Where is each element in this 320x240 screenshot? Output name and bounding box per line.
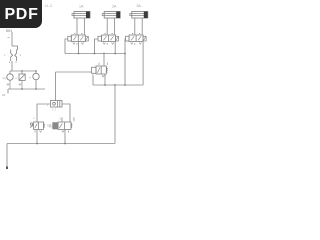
cylinder 2A (102, 12, 120, 19)
left column label under badge (6, 29, 12, 33)
check valve bypass bracket (12, 46, 18, 50)
PDF badge (0, 0, 42, 28)
shuttle valve 0V2 (51, 101, 63, 108)
wire supply bus upper (65, 53, 125, 55)
wire pilot line to valve 0V1 (56, 71, 92, 73)
wire valve 0V1 supply from below (104, 75, 106, 86)
compressor lower marks (19, 80, 22, 89)
node manifold junction 1 (21, 70, 23, 72)
gauge 2 lower wire (35, 80, 37, 89)
wire gauge 1 riser (9, 71, 11, 74)
label above valve 1S1 (33, 116, 35, 120)
wire cylinder 2A right port (114, 18, 116, 35)
node y85 junction 2 (114, 84, 116, 86)
valve 0V1 exhaust (102, 75, 105, 77)
wire valve 2S1 supply riser (64, 129, 66, 143)
valve 3V1 (5/2) (126, 35, 147, 42)
node bottom bus junction 2 (64, 143, 66, 145)
shuttle valve labels (47, 103, 57, 112)
valve 1S1 (3/2 roller) (30, 122, 45, 129)
wire manifold left drop (7, 89, 9, 94)
svg-text:0Z: 0Z (2, 93, 6, 97)
valve 3V1 port marks (131, 43, 142, 46)
wire main drop to bottom bus (114, 85, 116, 144)
svg-text:1A: 1A (79, 5, 84, 9)
valve 1S1 exhaust (35, 130, 42, 132)
wire valve 3V1 left pilot drop (124, 39, 127, 85)
wire filter to manifold (11, 61, 13, 71)
node manifold junction 2 (35, 70, 37, 72)
filter labels (4, 53, 22, 57)
tick above middle valve left (98, 63, 100, 66)
pressure gauge 2 (33, 73, 39, 79)
cylinder 2A label (112, 5, 117, 9)
wire bottom supply bus (7, 143, 115, 145)
wire bottom bus left drop (6, 144, 8, 167)
cylinder 1A label (79, 5, 84, 9)
valve 2S1 left label (49, 125, 53, 129)
wire stub above valve 2S1 (61, 118, 63, 123)
svg-text:2: 2 (20, 53, 22, 57)
wire gauge 2 riser (35, 71, 37, 73)
svg-text:(s): (s) (3, 76, 7, 80)
wire comp2 riser (21, 71, 23, 74)
valve 2S1 (3/2) (53, 122, 72, 129)
svg-text:2S: 2S (49, 125, 53, 129)
wire valve 3V1 right riser down (142, 42, 144, 85)
valve 2V1 (5/2) (98, 35, 119, 42)
node bottom manifold junction 2 (35, 88, 37, 90)
wire manifold top line (10, 70, 36, 72)
node y85 junction 3 (124, 84, 126, 86)
node bus junction C (103, 53, 105, 55)
gauge 1 label (3, 76, 7, 80)
small gray text right of badge (44, 3, 52, 8)
wire valve 1V1 supply riser (78, 42, 80, 54)
wire valve 2V1 supply riser (114, 42, 116, 54)
compressor unit (19, 74, 25, 80)
svg-text:b: b (30, 76, 32, 80)
node y85 junction 1 (104, 84, 106, 86)
wire cylinder 3A right port (141, 18, 143, 35)
compressor label (15, 76, 17, 80)
wire manifold bottom line (8, 88, 45, 90)
wire valve 1S1 supply riser (36, 129, 38, 143)
wire valve 1V1 left pilot (65, 39, 68, 54)
valve port label specks (74, 33, 140, 34)
node bottom manifold junction 1 (21, 88, 23, 90)
node bus junction E (124, 53, 126, 55)
node bottom bus junction 1 (36, 143, 38, 145)
wire shuttle output riser (55, 72, 57, 101)
tick above valve 2S1 right (73, 118, 75, 122)
wire cylinder 1A right port (83, 18, 85, 35)
wire cylinder 1A left port (76, 18, 78, 35)
svg-text:2: 2 (60, 117, 62, 121)
valve 1V1 (5/2) (68, 35, 89, 42)
wire left stub of y85 line (92, 75, 94, 86)
gauge 2 label (30, 76, 32, 80)
svg-text:2A: 2A (112, 5, 117, 9)
valve 2S1 exhaust (62, 130, 69, 132)
svg-text:2: 2 (33, 116, 35, 120)
cylinder 3A (130, 12, 148, 19)
filter unit (11, 50, 17, 62)
valve 1V1 port marks (73, 43, 84, 46)
cylinder 1A (72, 12, 90, 19)
node bus junction B (94, 53, 96, 55)
node bus junction D (114, 53, 116, 55)
filter bottom ticks (10, 62, 17, 64)
wire distribution line y85 (93, 84, 143, 86)
node bus junction A (78, 53, 80, 55)
valve 2S1 top labels (60, 117, 75, 121)
pressure gauge 1 (7, 74, 13, 80)
svg-text:1 3: 1 3 (52, 108, 57, 112)
svg-text:3A: 3A (137, 4, 142, 8)
gauge 1 lower marks (7, 80, 10, 89)
svg-text:u: u (15, 76, 17, 80)
wire service unit top (11, 32, 13, 46)
middle valve port 2 label tick (107, 63, 109, 66)
wire shuttle left branch (37, 104, 51, 122)
air supply connector tip (6, 167, 8, 170)
valve 0V1 (3/2 pilot operated) (92, 66, 108, 74)
cylinder 3A label (137, 4, 142, 8)
valve 2V1 port marks (103, 43, 114, 46)
valve 1S1 label (47, 124, 52, 128)
svg-text:0V1: 0V1 (6, 29, 12, 33)
wire shuttle right branch (62, 104, 70, 122)
wire cylinder 2A left port (106, 18, 108, 35)
wire middle valve output riser (103, 54, 105, 67)
wire valve 2V1 left pilot (95, 39, 99, 54)
port 2 label tick (8, 37, 10, 39)
svg-text:1: 1 (4, 53, 6, 57)
source label (2, 93, 6, 97)
wire cylinder 3A left port (134, 18, 136, 35)
